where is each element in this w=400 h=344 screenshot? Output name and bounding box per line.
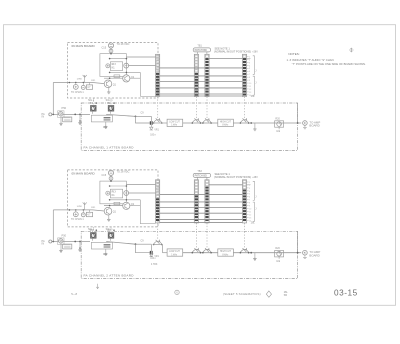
fader attenuator TB drop A (channel 1) [195,97,197,119]
svg-text:PATCH BD: PATCH BD [195,49,207,52]
footer circled number [175,290,179,294]
capacitor C2 (channel 1) [109,49,113,53]
transistor Q1 (channel 2) [104,207,112,215]
svg-text:LOW CUT: LOW CUT [169,251,180,253]
capacitor C4 right of relay (channel 1) [124,63,129,68]
transistor Q2 (channel 1) [123,75,130,82]
wire Q2 collector drop (channel 2) [139,200,141,224]
svg-text:TB1: TB1 [197,45,202,48]
svg-text:8 kHz: 8 kHz [222,125,229,127]
svg-text:TB3: TB3 [197,170,202,173]
transistor Q1 (channel 1) [104,80,112,88]
svg-text:R1: R1 [90,101,94,105]
svg-text:J: J [255,82,256,84]
svg-text:IN: IN [42,116,45,119]
wire collector row (channel 1) [110,71,141,73]
svg-text:1 kHz: 1 kHz [171,254,178,256]
wire collector row (channel 2) [110,199,141,201]
capacitor C6 input (channel 1) [82,83,84,86]
terminal strip TB3 left column (channel 2) [194,180,198,223]
resistor R7 input (channel 1) [88,83,90,85]
ground at output junction (channel 1) [250,122,252,124]
wire relay loop (channel 2) [100,181,127,204]
wire PA IN to connector (channel 2) [52,241,59,243]
balance network box (channel 2) [91,242,112,249]
capacitor C6 input (channel 2) [82,210,84,213]
footer arrow mark [96,284,99,289]
edge connector P1 strip (channel 2) [156,180,160,223]
pin group bracket +28V (channel 2) [253,181,255,200]
wire base row (channel 1) [104,77,123,79]
fader attenuator at edge connector drop (channel 2) [157,223,159,240]
wire connector to atten board (channel 2) [63,241,90,243]
wire inner link (channel 1) [110,58,127,60]
fader attenuator TB drop A (channel 2) [195,223,197,248]
svg-text:TO 28 VDC: TO 28 VDC [117,43,130,46]
dotted link board to trimmer R1 (channel 1) [92,98,94,105]
wire collector bus to edge connector (channel 1) [126,56,155,58]
svg-text:TO CHAN 1: TO CHAN 1 [71,91,84,94]
svg-text:1 kHz: 1 kHz [171,125,178,127]
capacitor C5 input (channel 1) [75,83,77,85]
dotted drop from edge connector (channel 2) [157,223,159,225]
svg-text:R44: R44 [103,254,108,256]
footer diamond mark [266,291,271,297]
capacitor C5 input (channel 2) [75,210,77,212]
svg-text:VR1: VR1 [154,129,159,131]
wire bus lines between strips (channel 1) [160,67,243,69]
pin numbers right of TB4 (channel 2) [247,181,249,183]
terminal PA IN (channel 1) [49,113,52,116]
transistor Q2 (channel 2) [123,202,130,209]
svg-text:PA CHANNEL 1 ATTEN BOARD: PA CHANNEL 1 ATTEN BOARD [84,145,135,149]
svg-text:J: J [255,196,256,198]
ground at output junction (channel 2) [250,252,252,254]
fader attenuator TB drop B (channel 1) [206,97,208,119]
svg-text:C15: C15 [102,174,107,177]
svg-text:R20: R20 [275,247,280,250]
wire riser to main board (channel 2) [52,210,54,242]
svg-text:8 kHz: 8 kHz [222,254,229,256]
ground at input junction (channel 2) [79,242,81,249]
filter block HIGH CUT (channel 2) [218,249,234,256]
capacitor C3 left of relay (channel 2) [106,191,110,195]
resistor R5 between Q1 Q2 (channel 1) [114,75,120,78]
label TB3 designation box (channel 2) [193,173,210,177]
fader attenuator at edge connector drop (channel 1) [157,97,159,119]
balance network box (channel 1) [91,115,112,122]
capacitor C10 (channel 1) [150,121,152,125]
svg-text:IN: IN [42,243,45,246]
resistor R4 block (channel 2) [104,244,111,245]
diode VR1 (channel 1) [150,127,153,130]
svg-text:LOW CUT: LOW CUT [169,121,180,123]
wire low cut to faders (channel 2) [183,252,218,254]
svg-text:“T” POINTS ARE ON THE ONE SIDE: “T” POINTS ARE ON THE ONE SIDE OF BOARD … [292,62,366,66]
dotted drop from edge connector (channel 1) [157,97,159,99]
fader attenuator TB drop B (channel 2) [206,223,208,248]
inductor L18 (channel 2) [83,202,87,209]
svg-text:C15: C15 [102,47,107,50]
wire inner link (channel 2) [110,185,127,187]
PA main board outline (channel 2) [68,170,159,227]
relay K1 (channel 2) [110,189,122,198]
svg-text:Q2: Q2 [131,76,135,79]
wire to Q1 base (channel 2) [93,210,105,211]
relay K1 (channel 1) [110,62,122,71]
svg-text:P50: P50 [62,233,67,237]
wire connector to atten board (channel 1) [63,113,90,115]
svg-text:09 MAIN BOARD: 09 MAIN BOARD [72,44,96,48]
atten board outline (channel 1) [81,103,297,150]
svg-text:4 TRK: 4 TRK [151,264,158,266]
registration cross mark [349,48,354,53]
ground at input junction (channel 1) [79,114,81,121]
wire Q1 emitter ground (channel 1) [108,88,110,91]
terminal strip TB2 (channel 1) [242,54,246,96]
capacitor C10 (channel 2) [150,251,152,255]
wire bus lines between strips (channel 2) [160,193,243,195]
svg-text:5—8: 5—8 [71,292,77,296]
output connector (channel 1) [297,122,299,124]
filter block LOW CUT (channel 2) [167,249,183,256]
wire to mid junction (channel 2) [106,242,135,245]
svg-text:5M: 5M [284,294,287,297]
svg-text:09 MAIN BOARD: 09 MAIN BOARD [72,171,96,175]
resistor R7 input (channel 2) [88,210,90,212]
label TB1 designation box (channel 1) [193,48,210,52]
svg-text:PATCH BD: PATCH BD [195,174,207,177]
terminal strip TB1 right column (channel 1) [205,54,209,96]
wire strip bottom rail (channel 2) [160,221,243,223]
dotted drop below TB columns (channel 2) [195,223,197,225]
edge connector P1 strip (channel 1) [156,54,160,96]
capacitor C2 (channel 2) [109,177,113,181]
capacitor C1 top (channel 1) [108,43,113,48]
wire step down (channel 1) [136,116,151,123]
PA main board outline (channel 1) [68,43,159,99]
wire Q1 emitter ground (channel 2) [108,215,110,218]
dotted link board to trimmer R1 (channel 2) [92,227,94,232]
svg-text:R2: R2 [107,228,111,232]
wire atten board right edge upper (channel 1) [297,103,299,123]
pin group bracket +28V (channel 1) [253,56,255,75]
capacitor C4 right of relay (channel 2) [124,191,129,196]
svg-text:100 n: 100 n [150,135,156,137]
wire Q2 collector drop (channel 1) [139,72,141,96]
svg-text:HIGH CUT: HIGH CUT [220,251,232,253]
svg-text:(SHEET 5 SCHEMATICS): (SHEET 5 SCHEMATICS) [223,292,261,296]
wire step down (channel 2) [136,244,151,253]
wire low cut to faders (channel 1) [183,122,218,124]
ground below balance network (channel 1) [105,122,107,125]
dotted link board to trimmer R2 (channel 2) [110,227,112,232]
wire strip bottom rail (channel 1) [160,95,243,97]
svg-text:03-15: 03-15 [334,289,358,298]
wire atten board right edge upper (channel 2) [297,232,299,254]
wire collector bus to edge connector (channel 2) [126,183,155,185]
pin numbers right of TB2 (channel 1) [247,56,249,58]
svg-text:R44: R44 [103,127,108,129]
capacitor C1 top (channel 2) [108,170,113,175]
wire PA IN to connector (channel 1) [52,113,59,115]
svg-text:100 n: 100 n [150,258,156,260]
svg-text:BOARD: BOARD [309,253,319,257]
svg-text:TO 28 VDC: TO 28 VDC [117,171,130,174]
svg-text:+28V: +28V [252,176,258,179]
svg-text:BOARD: BOARD [309,124,319,128]
filter block HIGH CUT (channel 1) [218,119,234,126]
svg-text:R2: R2 [107,101,111,105]
output connector (channel 2) [297,252,299,254]
diode VR1 (channel 2) [150,254,153,257]
svg-text:NOTES:: NOTES: [288,52,299,56]
ground below balance network (channel 2) [105,249,107,252]
filter block LOW CUT (channel 1) [167,119,183,126]
svg-text:(NORMAL IN/OUT POSITIONS): (NORMAL IN/OUT POSITIONS) [214,175,251,179]
capacitor C3 left of relay (channel 1) [106,64,110,68]
resistor R5 between Q1 Q2 (channel 2) [114,202,120,205]
terminal strip TB3 right column (channel 2) [205,180,209,223]
svg-text:R1: R1 [90,228,94,232]
wire base row (channel 2) [104,205,123,207]
svg-text:P50: P50 [62,106,67,110]
svg-text:J: J [255,70,256,72]
fader attenuator TB2 drop (channel 2) [244,223,246,248]
fader attenuator TB2 drop (channel 1) [244,97,246,119]
terminal strip TB4 (channel 2) [242,180,246,223]
resistor R4 block (channel 1) [104,117,111,118]
wire to mid junction (channel 1) [106,114,135,116]
wire high cut to output (channel 2) [233,252,301,254]
svg-text:TO CHAN 1: TO CHAN 1 [71,218,84,221]
svg-text:PA CHANNEL 2 ATTEN BOARD: PA CHANNEL 2 ATTEN BOARD [84,274,135,278]
svg-text:Q2: Q2 [131,203,135,206]
wire to Q1 base (channel 1) [93,83,105,84]
svg-text:(NORMAL IN/OUT POSITIONS): (NORMAL IN/OUT POSITIONS) [214,50,251,54]
terminal PA IN (channel 2) [49,240,52,243]
wire riser to main board (channel 1) [52,83,54,115]
atten board outline (channel 2) [81,231,297,278]
dotted link board to trimmer R2 (channel 1) [110,98,112,105]
svg-text:HIGH CUT: HIGH CUT [220,121,232,123]
wire high cut to output (channel 1) [233,122,301,124]
svg-text:J: J [255,208,256,210]
svg-text:+28V: +28V [252,51,258,54]
inductor L18 (channel 1) [83,75,87,82]
wire relay loop (channel 1) [100,54,127,77]
dotted drop below TB columns (channel 1) [195,97,197,99]
terminal strip TB1 left column (channel 1) [194,54,198,96]
svg-text:R20: R20 [275,117,280,120]
